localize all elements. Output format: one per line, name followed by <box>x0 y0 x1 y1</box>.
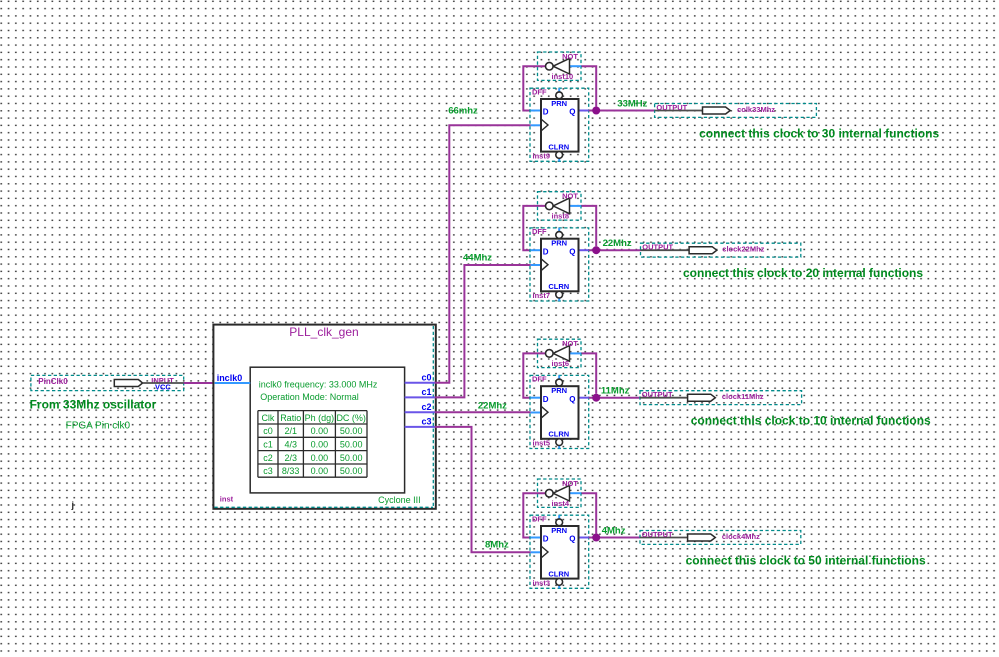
svg-text:inst9: inst9 <box>533 151 551 160</box>
svg-text:clock4Mhz: clock4Mhz <box>722 532 760 541</box>
wire feedback right DFF1 <box>581 66 596 106</box>
net label 33MHz <box>617 98 647 109</box>
PLL label inst <box>220 495 234 504</box>
svg-text:11Mhz: 11Mhz <box>601 386 630 397</box>
wire Q to junction DFF1 <box>589 110 655 112</box>
svg-text:NOT: NOT <box>562 52 578 61</box>
PLL port label inclk0 <box>217 373 243 383</box>
D flip-flop inst9 <box>530 88 589 162</box>
svg-text:Q: Q <box>569 535 575 544</box>
svg-text:OUTPUT: OUTPUT <box>656 103 687 112</box>
PLL inner parameter box <box>250 367 404 493</box>
wire Q to junction DFF4 <box>589 537 640 539</box>
output pin clock22Mhz <box>641 243 801 258</box>
annotation connect this clock to 20 inter <box>683 266 923 280</box>
svg-text:connect this clock to 10 inter: connect this clock to 10 internal functi… <box>691 414 931 428</box>
svg-text:22Mhz: 22Mhz <box>603 238 632 249</box>
input pin symbol <box>114 380 142 387</box>
NOT gate inst10 <box>538 52 582 81</box>
svg-text:D: D <box>543 247 549 256</box>
svg-text:From 33Mhz oscillator: From 33Mhz oscillator <box>30 398 157 412</box>
svg-text:Clk: Clk <box>261 413 274 423</box>
D flip-flop inst7 <box>530 227 589 301</box>
net label 66mhz <box>448 105 478 116</box>
svg-text:50.00: 50.00 <box>340 426 363 436</box>
svg-text:DFF: DFF <box>532 227 547 236</box>
svg-text:inst7: inst7 <box>533 291 551 300</box>
net label 22Mhz <box>603 238 632 249</box>
PLL text inclk0 frequency <box>259 379 378 389</box>
svg-text:connect this clock to 50 inter: connect this clock to 50 internal functi… <box>686 554 926 568</box>
svg-text:8Mhz: 8Mhz <box>485 539 509 550</box>
wire feedback right DFF3 <box>581 353 596 393</box>
PLL parameter table <box>258 411 367 478</box>
wire c1 to DFF2 clock <box>435 265 531 397</box>
svg-text:c3: c3 <box>263 466 273 476</box>
svg-text:inclk0 frequency: 33.000 MHz: inclk0 frequency: 33.000 MHz <box>259 379 378 389</box>
svg-text:Q: Q <box>569 247 575 256</box>
svg-text:c1: c1 <box>421 387 431 397</box>
output pin colk33Mhz <box>655 103 817 118</box>
svg-text:Ratio: Ratio <box>280 413 301 423</box>
svg-text:DC (%): DC (%) <box>336 413 366 423</box>
svg-text:OUTPUT: OUTPUT <box>642 390 673 399</box>
wire Q to junction DFF3 <box>589 397 640 399</box>
svg-text:PLL_clk_gen: PLL_clk_gen <box>289 325 358 339</box>
D flip-flop inst3 <box>530 515 589 589</box>
svg-text:4Mhz: 4Mhz <box>602 525 626 536</box>
svg-text:PRN: PRN <box>551 526 567 535</box>
PLL label Cyclone III <box>378 495 421 505</box>
svg-text:c2: c2 <box>421 402 431 412</box>
svg-text:clock11Mhz: clock11Mhz <box>722 392 764 401</box>
svg-text:Ph (dg): Ph (dg) <box>305 413 335 423</box>
net label 44Mhz <box>463 252 492 263</box>
svg-text:50.00: 50.00 <box>340 466 363 476</box>
NOT gate inst8 <box>538 192 582 221</box>
svg-text:DFF: DFF <box>532 515 547 524</box>
net label 4Mhz <box>602 525 626 536</box>
svg-text:DFF: DFF <box>532 88 547 97</box>
net label 11Mhz <box>601 386 630 397</box>
stray j mark <box>71 500 75 510</box>
svg-text:0.00: 0.00 <box>311 426 329 436</box>
PLL port c2 stub <box>405 411 435 413</box>
label INPUT <box>151 376 174 385</box>
annotation connect this clock to 50 inter <box>686 554 926 568</box>
svg-text:PinClk0: PinClk0 <box>38 377 68 386</box>
svg-text:Q: Q <box>569 395 575 404</box>
wire input pin to PLL <box>184 382 215 384</box>
junction node DFF2 output <box>592 246 600 254</box>
svg-text:22Mhz: 22Mhz <box>478 400 507 411</box>
svg-text:Operation Mode: Normal: Operation Mode: Normal <box>260 392 359 402</box>
svg-text:c1: c1 <box>263 440 273 450</box>
PLL port label c0 <box>421 373 431 383</box>
wire Q to junction DFF2 <box>589 249 641 251</box>
PLL port inclk0 stub <box>215 382 251 384</box>
annotation connect this clock to 10 inter <box>691 414 931 428</box>
svg-text:50.00: 50.00 <box>340 440 363 450</box>
svg-text:CLRN: CLRN <box>548 282 569 291</box>
svg-text:D: D <box>543 395 549 404</box>
svg-text:CLRN: CLRN <box>548 430 569 439</box>
svg-text:PRN: PRN <box>551 239 567 248</box>
svg-text:c0: c0 <box>263 426 273 436</box>
svg-text:44Mhz: 44Mhz <box>463 252 492 263</box>
svg-text:c3: c3 <box>421 417 431 427</box>
svg-text:NOT: NOT <box>562 479 578 488</box>
svg-text:66mhz: 66mhz <box>448 105 478 116</box>
svg-text:50.00: 50.00 <box>340 453 363 463</box>
svg-text:PRN: PRN <box>551 386 567 395</box>
wire feedback left DFF1 <box>523 66 545 110</box>
svg-text:inst3: inst3 <box>533 578 551 587</box>
label PinClk0 <box>38 377 68 386</box>
svg-text:0.00: 0.00 <box>311 440 329 450</box>
svg-text:DFF: DFF <box>532 375 547 384</box>
wire c2 to DFF3 clock <box>435 411 531 413</box>
svg-text:Cyclone III: Cyclone III <box>378 495 421 505</box>
PLL port label c3 <box>421 417 431 427</box>
svg-text:NOT: NOT <box>562 192 578 201</box>
output pin clock11Mhz <box>640 390 802 405</box>
svg-text:inclk0: inclk0 <box>217 373 243 383</box>
annotation From 33Mhz oscillator <box>30 398 157 412</box>
svg-text:2/1: 2/1 <box>284 426 297 436</box>
NOT gate inst4 <box>538 479 582 508</box>
junction node DFF1 output <box>592 107 600 115</box>
output pin clock4Mhz <box>640 530 801 545</box>
svg-text:33MHz: 33MHz <box>617 98 647 109</box>
junction node DFF3 output <box>592 394 600 402</box>
svg-text:inst: inst <box>220 495 234 504</box>
wire pin to box edge <box>143 382 184 384</box>
svg-text:OUTPUT: OUTPUT <box>642 243 673 252</box>
wire feedback left DFF2 <box>523 206 545 250</box>
svg-text:inst5: inst5 <box>533 439 551 448</box>
wire c0 to DFF1 clock <box>435 125 531 383</box>
PLL port label c1 <box>421 387 431 397</box>
wire c3 to DFF4 clock <box>435 427 531 552</box>
svg-text:connect this clock to 30 inter: connect this clock to 30 internal functi… <box>699 127 939 141</box>
svg-text:j: j <box>71 500 75 510</box>
svg-text:NOT: NOT <box>562 339 578 348</box>
wire feedback right DFF4 <box>581 493 596 533</box>
svg-text:c2: c2 <box>263 453 273 463</box>
PLL port c3 stub <box>405 426 435 428</box>
svg-text:2/3: 2/3 <box>284 453 297 463</box>
PLL title PLL_clk_gen <box>289 325 358 339</box>
svg-text:OUTPUT: OUTPUT <box>642 530 673 539</box>
wire feedback left DFF3 <box>523 353 545 397</box>
svg-text:c0: c0 <box>421 373 431 383</box>
svg-text:8/33: 8/33 <box>282 466 300 476</box>
svg-text:FPGA Pin clk0: FPGA Pin clk0 <box>66 420 131 431</box>
input pin PinClk0 selection box <box>31 375 184 390</box>
svg-text:Q: Q <box>569 108 575 117</box>
wire feedback right DFF2 <box>581 206 596 246</box>
PLL port c1 stub <box>405 396 435 398</box>
NOT gate inst6 <box>538 339 582 368</box>
svg-text:PRN: PRN <box>551 99 567 108</box>
svg-text:connect this clock to 20 inter: connect this clock to 20 internal functi… <box>683 266 923 280</box>
PLL port c0 stub <box>405 382 435 384</box>
net label 22Mhz left <box>478 400 507 411</box>
svg-text:inst4: inst4 <box>552 499 570 508</box>
label VCC <box>155 382 171 391</box>
svg-text:4/3: 4/3 <box>284 440 297 450</box>
annotation FPGA Pin clk0 <box>66 420 131 431</box>
wire feedback left DFF4 <box>523 493 545 537</box>
svg-text:colk33Mhz: colk33Mhz <box>737 105 775 114</box>
svg-text:0.00: 0.00 <box>311 466 329 476</box>
svg-text:D: D <box>543 535 549 544</box>
svg-text:inst6: inst6 <box>552 359 570 368</box>
net label 8Mhz <box>485 539 509 550</box>
svg-text:D: D <box>543 108 549 117</box>
svg-text:clock22Mhz: clock22Mhz <box>722 245 764 254</box>
junction node DFF4 output <box>592 534 600 542</box>
PLL block U inst (PLL_clk_gen) <box>213 325 435 509</box>
svg-text:0.00: 0.00 <box>311 453 329 463</box>
svg-text:CLRN: CLRN <box>548 142 569 151</box>
svg-text:inst10: inst10 <box>552 72 574 81</box>
annotation connect this clock to 30 inter <box>699 127 939 141</box>
svg-text:inst8: inst8 <box>552 212 570 221</box>
D flip-flop inst5 <box>530 375 589 449</box>
svg-text:CLRN: CLRN <box>548 569 569 578</box>
PLL text operation mode <box>260 392 359 402</box>
PLL port label c2 <box>421 402 431 412</box>
